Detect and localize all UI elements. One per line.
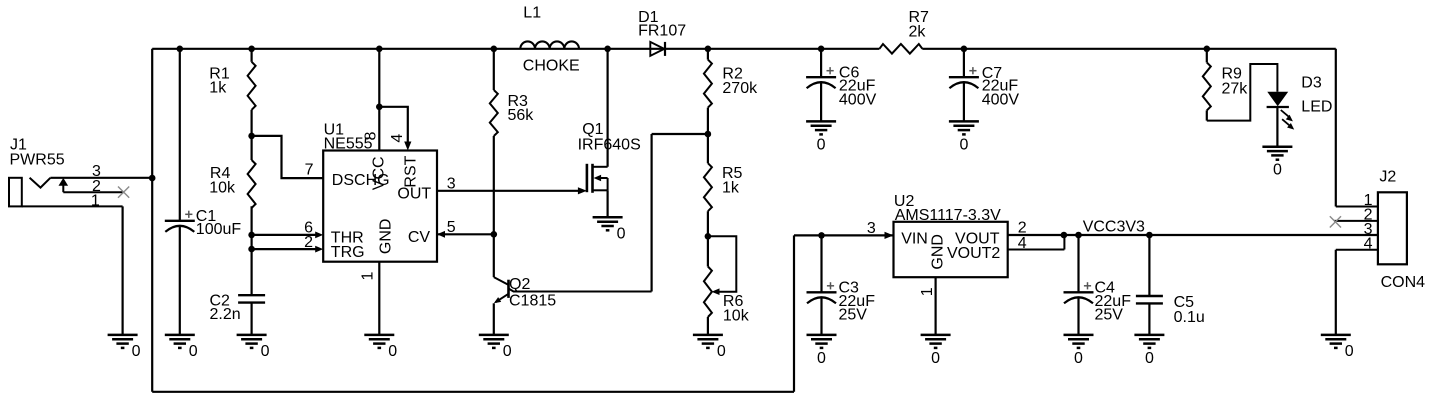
svg-text:0: 0 — [1273, 162, 1282, 179]
svg-text:2: 2 — [304, 234, 313, 251]
svg-text:400V: 400V — [982, 92, 1020, 109]
svg-text:CON4: CON4 — [1381, 274, 1426, 291]
svg-text:270k: 270k — [722, 80, 758, 97]
svg-text:1: 1 — [360, 272, 377, 281]
svg-text:0: 0 — [931, 350, 940, 367]
svg-text:7: 7 — [305, 162, 314, 179]
svg-text:2k: 2k — [909, 23, 927, 40]
svg-text:27k: 27k — [1222, 81, 1249, 98]
svg-text:0: 0 — [189, 343, 198, 360]
svg-text:PWR55: PWR55 — [10, 152, 65, 169]
svg-text:VIN: VIN — [901, 231, 928, 248]
svg-text:CV: CV — [408, 229, 431, 246]
svg-text:8: 8 — [363, 132, 380, 141]
svg-text:J2: J2 — [1379, 168, 1396, 185]
svg-text:VCC3V3: VCC3V3 — [1083, 219, 1145, 236]
svg-text:0: 0 — [717, 343, 726, 360]
svg-text:56k: 56k — [508, 107, 535, 124]
svg-text:LED: LED — [1301, 98, 1332, 115]
svg-text:IRF640S: IRF640S — [578, 137, 641, 154]
svg-text:RST: RST — [403, 155, 420, 187]
svg-text:VOUT2: VOUT2 — [947, 245, 1000, 262]
svg-text:400V: 400V — [839, 91, 877, 108]
svg-text:0: 0 — [1345, 343, 1354, 360]
svg-text:0: 0 — [132, 343, 141, 360]
svg-text:0: 0 — [261, 343, 270, 360]
svg-text:0: 0 — [817, 136, 826, 153]
svg-text:Q2: Q2 — [509, 276, 530, 293]
svg-text:CHOKE: CHOKE — [523, 58, 580, 75]
svg-text:0: 0 — [817, 350, 826, 367]
svg-text:4: 4 — [1364, 236, 1373, 253]
svg-text:1: 1 — [91, 193, 100, 210]
svg-text:1: 1 — [919, 287, 936, 296]
svg-text:1k: 1k — [209, 79, 227, 96]
svg-text:AMS1117-3.3V: AMS1117-3.3V — [895, 207, 1001, 224]
svg-text:25V: 25V — [1095, 307, 1124, 324]
svg-text:FR107: FR107 — [638, 23, 686, 40]
svg-text:L1: L1 — [523, 5, 541, 22]
svg-text:D3: D3 — [1301, 75, 1322, 92]
svg-text:2: 2 — [1018, 220, 1027, 237]
svg-text:0: 0 — [1074, 350, 1083, 367]
svg-text:4: 4 — [1018, 235, 1027, 252]
svg-text:0: 0 — [617, 225, 626, 242]
svg-text:10k: 10k — [209, 179, 236, 196]
svg-text:0: 0 — [503, 343, 512, 360]
svg-text:100uF: 100uF — [196, 221, 242, 238]
svg-text:0: 0 — [388, 343, 397, 360]
svg-text:3: 3 — [447, 176, 456, 193]
svg-text:1k: 1k — [722, 180, 740, 197]
svg-text:C1815: C1815 — [509, 293, 556, 310]
svg-text:GND: GND — [377, 219, 394, 255]
svg-text:2.2n: 2.2n — [210, 306, 241, 323]
svg-text:10k: 10k — [723, 307, 750, 324]
svg-text:VCC: VCC — [370, 156, 387, 190]
svg-text:TRG: TRG — [331, 244, 365, 261]
svg-text:0: 0 — [959, 136, 968, 153]
svg-text:3: 3 — [867, 220, 876, 237]
svg-text:0.1u: 0.1u — [1174, 309, 1205, 326]
svg-text:GND: GND — [930, 234, 947, 270]
svg-text:25V: 25V — [839, 307, 868, 324]
svg-text:4: 4 — [389, 134, 406, 143]
svg-text:0: 0 — [1145, 350, 1154, 367]
svg-text:5: 5 — [447, 219, 456, 236]
